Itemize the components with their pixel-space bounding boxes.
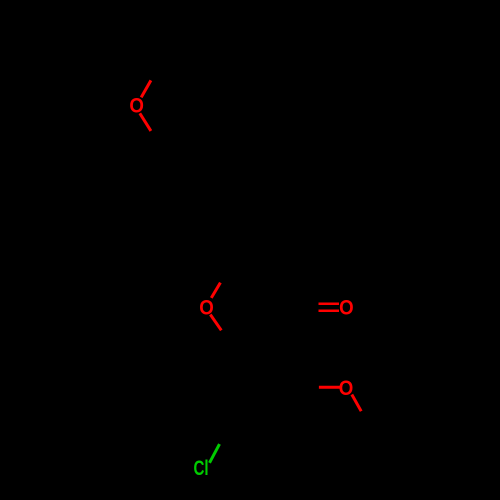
svg-text:Cl: Cl <box>193 455 208 479</box>
svg-text:O: O <box>339 296 354 319</box>
svg-text:O: O <box>199 297 214 320</box>
svg-text:O: O <box>339 377 354 400</box>
svg-text:O: O <box>129 95 144 118</box>
